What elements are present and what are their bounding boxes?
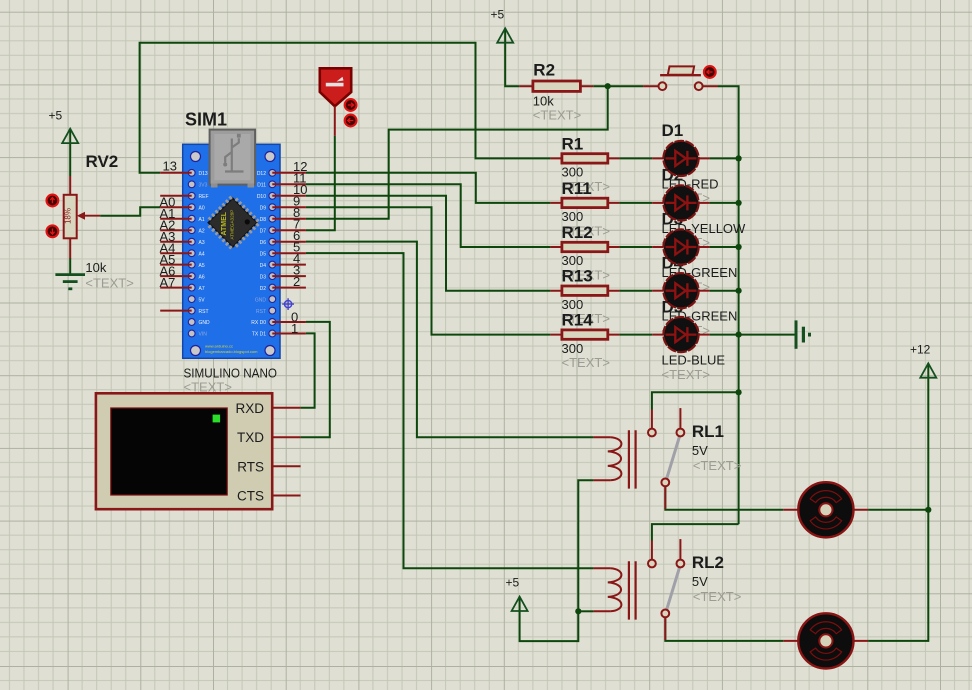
svg-text:A2: A2 — [199, 228, 205, 234]
relay RL2 coil — [593, 561, 635, 619]
RV2 up actuator — [47, 195, 59, 207]
svg-text:RXD: RXD — [235, 401, 264, 416]
svg-text:LED-BLUE: LED-BLUE — [662, 353, 726, 368]
svg-text:ATMEL: ATMEL — [221, 211, 228, 235]
svg-text:D8: D8 — [260, 217, 267, 223]
svg-text:TX D1: TX D1 — [252, 332, 266, 338]
svg-text:1: 1 — [291, 321, 298, 336]
svg-text:+5: +5 — [491, 8, 505, 22]
wire pin D8 to R2/button junction — [306, 86, 608, 219]
svg-text:D12: D12 — [257, 171, 266, 177]
svg-text:R14: R14 — [562, 311, 594, 330]
wire RV2 bottom to ground — [69, 258, 71, 274]
svg-text:R13: R13 — [562, 267, 593, 286]
wire pin D9 to R14 — [306, 207, 551, 334]
potentiometer RV2 — [64, 176, 101, 259]
wire pin D7 to logic probe — [306, 136, 335, 230]
svg-text:A1: A1 — [199, 217, 205, 223]
svg-text:D1: D1 — [662, 121, 684, 140]
push button — [659, 66, 703, 90]
Arduino USB connector — [210, 130, 256, 188]
wire pin D11 to R12 — [306, 184, 551, 247]
resistor R11 — [562, 198, 608, 207]
svg-text:RL2: RL2 — [692, 553, 724, 572]
RV2 down actuator — [47, 225, 59, 237]
svg-text:RV2: RV2 — [86, 152, 119, 171]
junction relay coils +5 rail — [575, 608, 581, 614]
svg-text:ATMEGA328P: ATMEGA328P — [230, 210, 235, 240]
power +5 (R2) — [491, 8, 514, 43]
motor M2 leads — [783, 640, 868, 642]
motor M2 — [798, 613, 853, 668]
svg-text:REF: REF — [199, 194, 209, 200]
resistor R12 — [562, 242, 608, 251]
svg-text:5V: 5V — [199, 297, 206, 303]
junction LED D4 cathode on bus — [736, 288, 742, 294]
wire pin D5 to relay RL2 coil — [306, 253, 594, 568]
svg-text:D3: D3 — [260, 274, 267, 280]
Arduino Nano SIM1 board — [183, 144, 280, 358]
resistor R13 — [562, 286, 608, 295]
svg-text:D4: D4 — [260, 263, 267, 269]
wire LED D4 to bus — [710, 290, 739, 292]
wire +12 rail down to motor M2 — [868, 363, 928, 641]
svg-text:GND: GND — [199, 320, 211, 326]
svg-text:300: 300 — [562, 341, 584, 356]
wire R1 to LED — [619, 157, 652, 159]
LED D3 (LED-GREEN) — [652, 229, 709, 264]
svg-text:<TEXT>: <TEXT> — [662, 367, 710, 382]
svg-text:3V3: 3V3 — [199, 183, 208, 189]
svg-text:www.arduino.cc: www.arduino.cc — [205, 344, 233, 349]
push button actuator — [704, 66, 716, 78]
wire R13 to LED — [619, 290, 652, 292]
wire LED D5 to bus — [710, 334, 739, 336]
wire RL1 pole to motor M1 — [665, 486, 783, 510]
resistor R13 leads — [550, 290, 619, 292]
wire LED bus bottom to RL2 NC contact — [652, 524, 739, 540]
svg-text:+12: +12 — [910, 343, 931, 357]
svg-text:<TEXT>: <TEXT> — [693, 458, 741, 473]
push button leads — [643, 85, 718, 87]
svg-text:D9: D9 — [260, 205, 267, 211]
svg-text:<TEXT>: <TEXT> — [562, 355, 610, 370]
svg-text:300: 300 — [562, 165, 584, 180]
svg-text:CTS: CTS — [237, 489, 264, 504]
resistor R2 — [533, 81, 581, 91]
resistor R11 leads — [550, 202, 619, 204]
junction LED D1 cathode on bus — [736, 155, 742, 161]
svg-text:R1: R1 — [562, 134, 584, 153]
wire RL1 coil bottom to +5 rail — [520, 480, 594, 641]
svg-text:RL1: RL1 — [692, 422, 724, 441]
svg-text:A7: A7 — [160, 275, 176, 290]
svg-text:A6: A6 — [199, 274, 205, 280]
resistor R14 leads — [550, 334, 619, 336]
LED D1 (LED-RED) — [652, 141, 709, 176]
svg-text:D13: D13 — [199, 171, 208, 177]
wire R12 to LED — [619, 246, 652, 248]
LED D5 (LED-BLUE) — [652, 317, 709, 352]
Arduino right pin stubs — [272, 173, 306, 334]
svg-text:D11: D11 — [257, 183, 266, 189]
svg-text:RX D0: RX D0 — [251, 320, 266, 326]
wire +5 to RV2 top — [69, 129, 71, 176]
wire button to LED cathode bus — [718, 86, 739, 524]
motor M1 — [798, 482, 853, 537]
junction bus to RL1 contact — [736, 389, 742, 395]
svg-text:GND: GND — [255, 297, 267, 303]
LED D4 (LED-GREEN) — [652, 273, 709, 308]
svg-text:D6: D6 — [260, 240, 267, 246]
junction motor M1 on +12 bus — [925, 507, 931, 513]
svg-text:D5: D5 — [260, 251, 267, 257]
svg-text:10k: 10k — [533, 94, 554, 109]
terminal pin stubs — [272, 408, 300, 496]
analog pin labels A0-A7 — [160, 194, 176, 289]
svg-text:SIMULINO NANO: SIMULINO NANO — [184, 366, 278, 381]
Arduino ATMEGA328P chip — [203, 193, 262, 252]
svg-text:<TEXT>: <TEXT> — [533, 108, 581, 123]
wire LED D3 to bus — [710, 246, 739, 248]
svg-text:RST: RST — [199, 309, 209, 315]
svg-text:18%: 18% — [64, 208, 73, 224]
wire LED D1 to bus — [710, 157, 739, 159]
probe toggle down actuator — [345, 115, 357, 127]
svg-text:RST: RST — [256, 309, 266, 315]
svg-text:A7: A7 — [199, 286, 205, 292]
wire R14 to LED — [619, 334, 652, 336]
wire pin D13 to R1 (top route) — [140, 43, 551, 173]
svg-text:VIN: VIN — [199, 332, 208, 338]
wire pin D12 to R11 — [306, 173, 551, 203]
svg-text:5V: 5V — [692, 443, 708, 458]
resistor R2 leads — [519, 85, 593, 87]
svg-text:<TEXT>: <TEXT> — [85, 276, 133, 291]
junction LED D5 cathode on bus — [736, 332, 742, 338]
svg-text:A5: A5 — [199, 263, 205, 269]
motor M1 leads — [783, 509, 868, 511]
ground (RV2) — [55, 275, 85, 289]
svg-text:13: 13 — [163, 159, 177, 174]
ground (LED bus) — [796, 320, 810, 348]
probe toggle up actuator — [345, 99, 357, 111]
junction LED D2 cathode on bus — [736, 200, 742, 206]
wire motor M1 to +12 bus — [868, 509, 928, 511]
svg-text:A4: A4 — [199, 251, 205, 257]
resistor R1 leads — [550, 157, 619, 159]
svg-text:A0: A0 — [199, 205, 205, 211]
Arduino pin pads and pin name labels — [188, 169, 275, 337]
Arduino left pin stubs — [160, 173, 192, 311]
svg-text:SIM1: SIM1 — [185, 109, 227, 129]
svg-text:2: 2 — [293, 274, 300, 289]
svg-text:R11: R11 — [562, 179, 592, 198]
svg-text:<TEXT>: <TEXT> — [693, 589, 741, 604]
resistor R14 — [562, 330, 608, 339]
svg-text:+5: +5 — [49, 109, 63, 123]
relay RL1 contacts and lever — [652, 408, 681, 509]
wire LED bus to RL1 NC contact — [652, 392, 739, 409]
origin marker crosshair — [282, 298, 294, 310]
power +5 (relay rail) — [506, 576, 528, 612]
svg-text:300: 300 — [562, 209, 584, 224]
svg-text:TXD: TXD — [237, 430, 264, 445]
wire +5 to R2 — [505, 28, 519, 86]
terminal pin labels — [235, 401, 264, 504]
relay RL1 coil — [593, 430, 635, 488]
wire pin D6 to relay RL1 coil — [306, 242, 594, 438]
svg-text:RTS: RTS — [237, 459, 264, 474]
resistor R12 leads — [550, 246, 619, 248]
relay RL2 contacts and lever — [652, 539, 681, 640]
svg-text:+5: +5 — [506, 576, 520, 590]
logic state probe on pin D7 — [320, 68, 351, 136]
wire RL2 coil bottom to +5 rail junction — [578, 610, 593, 612]
wire LED D2 to bus — [710, 202, 739, 204]
pin numbers 12..2 and 0,1 — [291, 159, 307, 336]
svg-text:10k: 10k — [85, 260, 106, 275]
svg-text:R2: R2 — [533, 61, 555, 80]
svg-text:A3: A3 — [199, 240, 205, 246]
LED D2 (LED-YELLOW) — [652, 185, 709, 220]
wire R2 to junction to button — [593, 85, 643, 87]
svg-text:D7: D7 — [260, 228, 267, 234]
virtual terminal — [96, 393, 272, 509]
svg-text:5V: 5V — [692, 574, 708, 589]
svg-text:R12: R12 — [562, 223, 593, 242]
svg-text:D10: D10 — [257, 194, 266, 200]
wire R11 to LED — [619, 202, 652, 204]
wire LED bus to ground — [739, 334, 795, 336]
svg-text:D2: D2 — [260, 286, 267, 292]
svg-text:blogembarcado.blogspot.com: blogembarcado.blogspot.com — [205, 349, 258, 354]
wire RL2 pole to motor M2 — [665, 617, 783, 641]
resistor R1 — [562, 154, 608, 163]
wire pin TX D1 to terminal RXD — [301, 333, 315, 407]
wire RV2 wiper to pin A0 — [100, 207, 160, 216]
junction LED D3 cathode on bus — [736, 244, 742, 250]
wire pin D10 to R13 — [306, 196, 551, 291]
wire pin RX D0 to terminal TXD — [301, 322, 330, 437]
junction R2/button/D8 — [605, 83, 611, 89]
power +5 (RV2) — [49, 109, 79, 144]
power +12 (motor rail) — [910, 343, 936, 378]
